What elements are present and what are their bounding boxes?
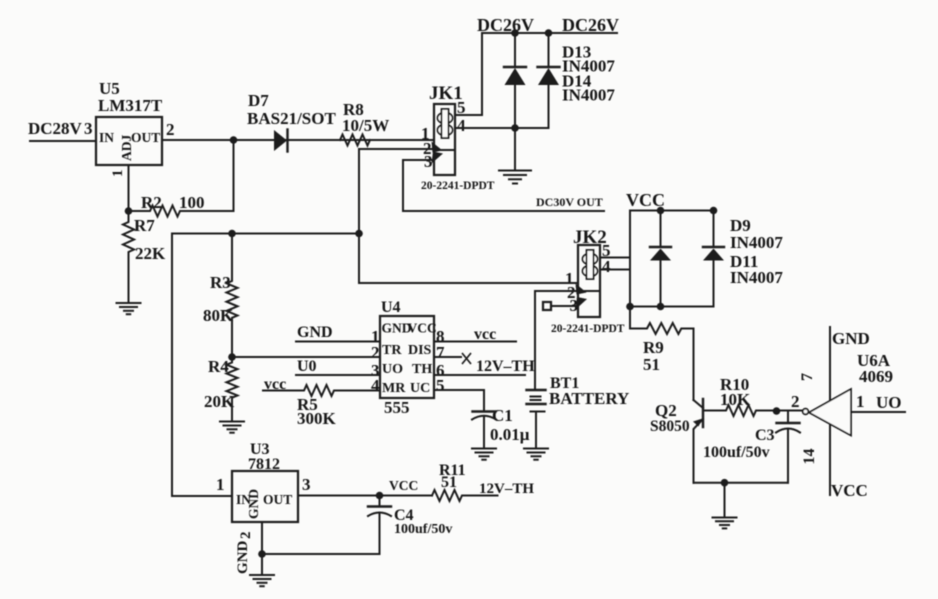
svg-text:TH: TH xyxy=(412,362,432,377)
diode D9 xyxy=(650,211,671,307)
relay JK1 xyxy=(421,83,495,192)
svg-text:3: 3 xyxy=(84,119,93,138)
svg-text:C1: C1 xyxy=(492,406,513,425)
svg-text:S8050: S8050 xyxy=(650,418,690,435)
wire JK2 pin3 with terminal xyxy=(551,305,578,307)
svg-text:U4: U4 xyxy=(381,299,401,316)
wire JK2 pin2 to battery xyxy=(535,291,578,389)
svg-text:GND: GND xyxy=(246,489,261,519)
ground under C1 xyxy=(472,449,496,460)
svg-text:D7: D7 xyxy=(248,91,269,110)
svg-text:7: 7 xyxy=(799,373,816,381)
diode labels D13 D14 xyxy=(562,43,615,105)
wire emitter ground rail xyxy=(694,482,789,484)
wire U3 out rail xyxy=(298,495,432,497)
wire U3 pin2 gnd xyxy=(262,553,380,555)
svg-text:2: 2 xyxy=(238,532,254,540)
svg-text:300K: 300K xyxy=(297,409,337,428)
svg-text:2: 2 xyxy=(791,392,800,411)
wire left column to U3 xyxy=(172,234,232,497)
inverter U6A 4069 xyxy=(791,327,905,500)
svg-text:12V–TH: 12V–TH xyxy=(476,358,535,375)
wire JK1 pin2 xyxy=(359,148,434,150)
resistor R5 on 555 pin4 xyxy=(263,376,380,428)
wire JK1 pin4 xyxy=(455,127,549,129)
diode D13 xyxy=(504,33,526,170)
resistor R4 xyxy=(204,357,238,422)
resistor R3 xyxy=(203,234,238,358)
node R3-R4 junction xyxy=(228,353,236,361)
node base junction xyxy=(773,407,781,415)
svg-text:0.01μ: 0.01μ xyxy=(490,425,530,444)
wire 555 pin2 xyxy=(232,356,380,358)
resistor R10 xyxy=(703,375,803,416)
svg-text:4: 4 xyxy=(457,116,466,135)
svg-text:U0: U0 xyxy=(297,358,317,375)
wire xyxy=(30,140,96,142)
resistor R11 xyxy=(432,462,498,501)
svg-text:DC28V: DC28V xyxy=(28,119,83,138)
svg-text:LM317T: LM317T xyxy=(98,96,163,115)
svg-text:10K: 10K xyxy=(720,390,751,409)
contact arrows xyxy=(432,142,443,153)
svg-text:IN: IN xyxy=(99,130,114,145)
transistor Q2 xyxy=(650,329,703,483)
relay JK2 xyxy=(551,227,625,335)
svg-text:1: 1 xyxy=(216,475,225,494)
svg-text:1: 1 xyxy=(856,392,865,411)
capacitor C1 xyxy=(472,406,530,449)
wire 555 pin5 xyxy=(434,390,484,412)
wire JK2 pin1 xyxy=(359,282,578,284)
svg-text:GND: GND xyxy=(297,324,333,341)
svg-text:ADJ: ADJ xyxy=(119,135,134,161)
svg-text:UC: UC xyxy=(410,381,430,396)
wire JK1 pin3 to DC30V OUT xyxy=(403,160,604,211)
svg-text:100: 100 xyxy=(179,193,205,212)
node VCC rail xyxy=(626,190,717,214)
svg-text:BATTERY: BATTERY xyxy=(549,389,629,408)
node DC26V rail xyxy=(477,15,619,37)
svg-text:vcc: vcc xyxy=(474,326,496,343)
coil JK2 xyxy=(583,254,598,265)
wire VCC bottom junction xyxy=(630,306,714,308)
svg-text:R7: R7 xyxy=(134,216,155,235)
svg-text:TR: TR xyxy=(382,343,402,358)
coil JK1 xyxy=(438,113,453,124)
op-amp U4 555 timer xyxy=(371,299,445,417)
svg-text:C3: C3 xyxy=(755,427,775,444)
svg-text:IN4007: IN4007 xyxy=(562,86,615,105)
svg-text:OUT: OUT xyxy=(263,492,292,507)
resistor R8 xyxy=(340,100,389,146)
svg-text:IN4007: IN4007 xyxy=(730,233,783,252)
op-amp U5 regulator LM317T xyxy=(96,79,175,177)
svg-text:100uf/50v: 100uf/50v xyxy=(394,522,452,537)
svg-text:4: 4 xyxy=(371,376,380,395)
diode D7 xyxy=(247,91,336,152)
resistor R9 xyxy=(630,307,694,375)
ground under D13 xyxy=(499,171,531,184)
wire horizontal y233 xyxy=(172,233,359,235)
svg-text:DC30V OUT: DC30V OUT xyxy=(536,195,603,209)
svg-text:4: 4 xyxy=(602,257,611,276)
resistor R2 xyxy=(129,140,234,217)
svg-text:UO: UO xyxy=(382,362,403,377)
svg-text:OUT: OUT xyxy=(131,130,160,145)
svg-text:3: 3 xyxy=(424,152,433,171)
svg-text:1: 1 xyxy=(110,170,126,178)
svg-text:12V–TH: 12V–TH xyxy=(479,481,534,497)
svg-text:3: 3 xyxy=(302,475,311,494)
wire U5 out xyxy=(162,139,434,141)
svg-text:VCC: VCC xyxy=(831,481,868,500)
ground under BT1 xyxy=(524,449,548,460)
svg-text:2: 2 xyxy=(166,120,175,139)
svg-text:555: 555 xyxy=(384,398,410,417)
svg-text:20-2241-DPDT: 20-2241-DPDT xyxy=(551,323,625,335)
svg-text:5: 5 xyxy=(436,376,445,395)
op-amp U3 7812 regulator xyxy=(216,441,311,574)
svg-text:20K: 20K xyxy=(204,392,235,411)
svg-text:DIS: DIS xyxy=(408,343,432,358)
wire U5 adj xyxy=(128,165,130,211)
svg-text:GND: GND xyxy=(235,541,251,575)
battery BT1 xyxy=(527,375,630,449)
resistor R7 xyxy=(123,211,166,303)
svg-text:MR: MR xyxy=(382,381,406,396)
ground under R4 xyxy=(220,422,244,433)
wire 555 pin7 with x mark xyxy=(434,356,461,358)
svg-text:20-2241-DPDT: 20-2241-DPDT xyxy=(421,180,495,192)
node R2 top junction xyxy=(230,136,238,144)
diode labels D9 D11 xyxy=(730,216,783,287)
svg-text:UO: UO xyxy=(876,393,902,412)
capacitor C4 xyxy=(368,496,452,555)
ground under Q2 xyxy=(713,518,737,529)
svg-text:7: 7 xyxy=(436,343,445,362)
svg-text:GND: GND xyxy=(832,329,870,348)
node DC28V input xyxy=(28,119,96,141)
svg-text:4069: 4069 xyxy=(859,367,893,386)
diode D14 xyxy=(538,33,560,128)
node adj junction xyxy=(125,207,133,215)
svg-text:IN4007: IN4007 xyxy=(730,268,783,287)
svg-text:10/5W: 10/5W xyxy=(342,116,389,135)
capacitor C3 xyxy=(703,411,800,483)
svg-text:BAS21/SOT: BAS21/SOT xyxy=(247,109,336,128)
svg-text:VCC: VCC xyxy=(389,478,418,493)
svg-text:100uf/50v: 100uf/50v xyxy=(703,444,770,461)
diode D11 xyxy=(703,211,724,307)
ground under R7 xyxy=(117,303,141,314)
wire JK2 pin5/pin4 to VCC column xyxy=(600,257,630,259)
svg-text:2: 2 xyxy=(371,343,380,362)
svg-text:VCC: VCC xyxy=(408,321,437,336)
wire junction column x359 xyxy=(358,149,360,283)
svg-text:22K: 22K xyxy=(135,244,166,263)
wire JK1 pin5 xyxy=(455,33,482,115)
svg-text:14: 14 xyxy=(801,449,818,465)
ground under U3 xyxy=(250,575,274,586)
svg-text:51: 51 xyxy=(643,355,660,374)
